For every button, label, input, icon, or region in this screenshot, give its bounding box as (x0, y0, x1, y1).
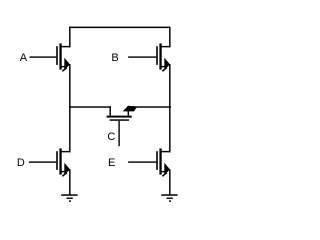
wire right vertical (B source to E drain) (169, 64, 170, 152)
svg-text:D: D (17, 157, 25, 169)
wire middle left segment (69, 106, 111, 107)
channel bar E (159, 148, 161, 174)
svg-text:B: B (111, 52, 118, 64)
svg-text:A: A (20, 52, 28, 64)
source stem C (128, 111, 129, 116)
wire Q-B drain vertical (169, 27, 170, 48)
transistor Q-B (128, 43, 170, 71)
source stub E (161, 171, 165, 172)
source arrow E (164, 163, 170, 176)
transistor Q-C (107, 106, 138, 147)
source stub D (61, 171, 65, 172)
gate bar E (156, 151, 158, 170)
source arrow D (64, 163, 70, 176)
gate bar D (56, 151, 58, 170)
gate lead E (128, 161, 156, 162)
transistor Q-D (29, 148, 71, 176)
gate lead A (30, 56, 57, 57)
gate bar A (56, 46, 58, 65)
wire Q-A drain vertical (69, 27, 70, 48)
channel bar C (107, 116, 132, 118)
channel bar B (159, 43, 161, 69)
drain lead E (160, 151, 171, 152)
channel bar D (59, 148, 61, 174)
wire left vertical (A source to D drain) (69, 64, 70, 152)
source stub B (161, 66, 165, 67)
wire E source vertical (169, 169, 170, 194)
drain lead B (160, 46, 171, 47)
source arrow B (164, 58, 170, 71)
source stub A (61, 66, 65, 67)
drain drop C (110, 106, 111, 116)
drain lead A (60, 46, 71, 47)
wire middle right segment (127, 106, 171, 107)
gate lead B (128, 56, 156, 57)
wire top rail (69, 27, 170, 29)
channel bar A (59, 43, 61, 69)
drain lead D (60, 151, 71, 152)
ground left (61, 194, 77, 201)
gate lead C (118, 121, 119, 146)
wire D source vertical (69, 169, 70, 194)
gate bar C (110, 119, 129, 121)
source arrow A (64, 58, 70, 71)
gate lead D (29, 161, 56, 162)
transistor Q-E (128, 148, 170, 176)
gate bar B (156, 46, 158, 65)
svg-text:E: E (108, 157, 115, 169)
ground right (161, 194, 177, 201)
svg-text:C: C (107, 131, 115, 143)
source arrow C (123, 106, 138, 112)
transistor Q-A (30, 43, 71, 71)
